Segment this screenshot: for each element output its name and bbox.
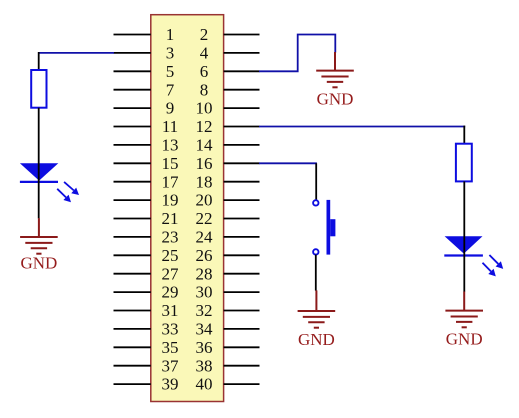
svg-text:35: 35: [162, 338, 179, 357]
svg-text:15: 15: [162, 154, 179, 173]
svg-text:24: 24: [196, 228, 214, 247]
svg-text:11: 11: [162, 117, 178, 136]
svg-text:1: 1: [166, 25, 175, 44]
svg-text:16: 16: [196, 154, 213, 173]
svg-text:32: 32: [196, 301, 213, 320]
svg-text:37: 37: [162, 356, 180, 375]
svg-text:6: 6: [200, 62, 209, 81]
svg-text:18: 18: [196, 172, 213, 191]
svg-text:33: 33: [162, 320, 179, 339]
svg-text:13: 13: [162, 136, 179, 155]
svg-text:25: 25: [162, 246, 179, 265]
svg-text:38: 38: [196, 356, 213, 375]
svg-text:23: 23: [162, 228, 179, 247]
svg-text:31: 31: [162, 301, 179, 320]
svg-text:29: 29: [162, 283, 179, 302]
svg-text:10: 10: [196, 99, 213, 118]
svg-text:GND: GND: [298, 330, 335, 349]
svg-text:8: 8: [200, 80, 209, 99]
svg-text:17: 17: [162, 172, 180, 191]
svg-text:34: 34: [196, 320, 214, 339]
svg-text:3: 3: [166, 44, 175, 63]
svg-text:36: 36: [196, 338, 213, 357]
svg-text:GND: GND: [446, 330, 483, 349]
svg-text:22: 22: [196, 209, 213, 228]
svg-text:26: 26: [196, 246, 213, 265]
svg-text:28: 28: [196, 264, 213, 283]
svg-text:4: 4: [200, 44, 209, 63]
svg-text:7: 7: [166, 80, 175, 99]
svg-text:30: 30: [196, 283, 213, 302]
svg-text:5: 5: [166, 62, 175, 81]
svg-text:21: 21: [162, 209, 179, 228]
svg-text:9: 9: [166, 99, 175, 118]
svg-text:12: 12: [196, 117, 213, 136]
svg-text:14: 14: [196, 136, 214, 155]
svg-text:39: 39: [162, 375, 179, 394]
svg-text:19: 19: [162, 191, 179, 210]
svg-text:27: 27: [162, 264, 180, 283]
svg-text:2: 2: [200, 25, 209, 44]
svg-text:20: 20: [196, 191, 213, 210]
svg-text:GND: GND: [20, 254, 57, 273]
svg-text:40: 40: [196, 375, 213, 394]
svg-text:GND: GND: [317, 90, 354, 109]
